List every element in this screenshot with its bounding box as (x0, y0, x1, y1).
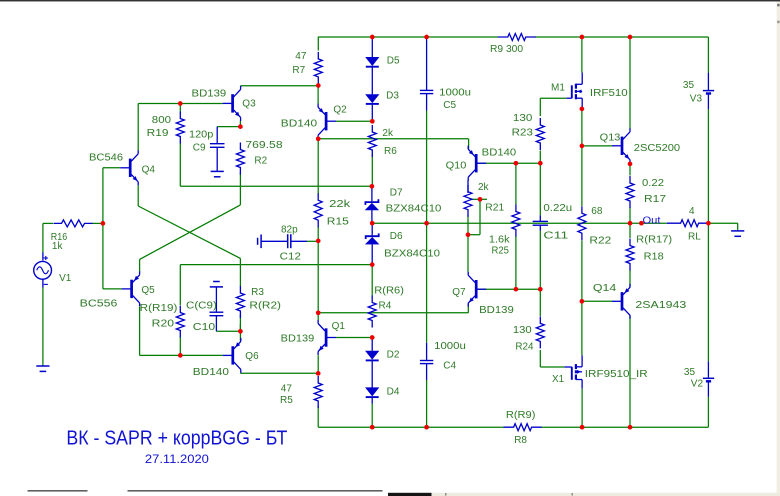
svg-text:D7: D7 (390, 188, 403, 199)
svg-text:2k: 2k (382, 128, 394, 139)
svg-text:R7: R7 (292, 65, 305, 76)
wire Q1 emitter to R5 (317, 355, 319, 373)
junction dots (178, 101, 183, 106)
svg-text:R22: R22 (589, 236, 611, 247)
wire M1 drain top (581, 37, 583, 73)
svg-text:Q4: Q4 (142, 165, 156, 176)
svg-text:120p: 120p (189, 130, 214, 141)
ground for C9 (211, 170, 224, 172)
wire top supply rail right of R9 (535, 36, 709, 38)
bottom window line middle (128, 490, 383, 491)
wire R5 bottom to rail (317, 406, 319, 428)
wire V1 to ground (42, 288, 44, 367)
transistor Q7 BD139 (475, 280, 478, 298)
transistor Q14 2SA1943 (621, 292, 624, 310)
wire R16 to node A (92, 222, 103, 224)
svg-text:BC556: BC556 (80, 299, 118, 310)
svg-text:27.11.2020: 27.11.2020 (145, 454, 209, 466)
svg-text:BD140: BD140 (281, 118, 318, 129)
resistor R15 22k (314, 193, 322, 227)
svg-text:BC546: BC546 (89, 152, 123, 163)
svg-text:47: 47 (281, 384, 293, 395)
svg-text:R23: R23 (512, 127, 534, 138)
wire Q3 emitter node (239, 121, 241, 128)
resistor R5 47 (314, 376, 322, 408)
svg-text:0.22u: 0.22u (543, 203, 572, 214)
svg-text:R(R9): R(R9) (506, 410, 535, 421)
wire Q2 base (336, 120, 372, 122)
wire V3 column upper (707, 37, 709, 73)
svg-text:D4: D4 (387, 387, 400, 398)
wire Q6 emitter node (239, 324, 241, 331)
resistor R24 130 (536, 316, 544, 348)
svg-text:22k: 22k (329, 199, 351, 210)
svg-text:Q7: Q7 (452, 287, 466, 298)
svg-text:Q5: Q5 (141, 285, 155, 296)
transistor Q10 BD140 (475, 154, 478, 172)
svg-text:D5: D5 (387, 55, 400, 66)
svg-text:R6: R6 (384, 146, 397, 157)
wire mid row y264 to D6 bottom (180, 264, 372, 266)
wire top supply rail left of R9 (318, 36, 498, 38)
resistor R25 1.6k (512, 205, 520, 237)
transistor Q2 BD140 (325, 112, 328, 130)
resistor R17 0.22 (626, 176, 634, 208)
svg-text:C12: C12 (280, 252, 302, 263)
svg-text:R(R19): R(R19) (140, 303, 178, 314)
wire Q14 base node to X1 (581, 301, 583, 355)
transistor Q3 BD139 (231, 94, 234, 112)
svg-text:D2: D2 (387, 350, 400, 361)
capacitor C9 120p (216, 127, 218, 143)
svg-text:X1: X1 (552, 374, 565, 385)
svg-text:V2: V2 (691, 378, 704, 389)
wire R15 bottom to C12 node (317, 226, 319, 241)
svg-text:130: 130 (513, 325, 532, 336)
resistor R7 47 (314, 52, 322, 84)
wire R23 bottom (539, 151, 541, 164)
svg-text:C4: C4 (443, 361, 456, 372)
svg-text:R(R17): R(R17) (636, 235, 672, 246)
transistor Q13 2SC5200 (621, 137, 624, 155)
diode D2 (371, 338, 373, 351)
bottom taskbar black segment (388, 493, 432, 496)
wire C11 column (539, 163, 541, 215)
mosfet M1 IRF510 (566, 97, 572, 99)
wire R19 top lead (179, 104, 181, 112)
wire R18 bottom to Q14 emitter (629, 270, 631, 288)
wire node A column to Q5 base (102, 223, 104, 289)
wire R24 top (539, 289, 541, 316)
svg-text:Q14: Q14 (593, 283, 617, 294)
svg-text:0.22: 0.22 (642, 178, 664, 189)
svg-text:C9: C9 (193, 143, 206, 154)
svg-text:IRF9510_IR: IRF9510_IR (585, 369, 648, 380)
wire C12 node to Q1 node (317, 241, 319, 313)
resistor R4 (368, 296, 376, 328)
capacitor C5 1000u (426, 37, 428, 90)
wire V2 column upper (707, 223, 709, 361)
transistor Q6 BD140 (231, 346, 234, 364)
resistor RL 4 (667, 220, 708, 227)
wire R4 top lead (371, 265, 373, 296)
svg-text:R4: R4 (379, 300, 392, 311)
wire cross diagonal A (Q4 emitter to R3) (137, 185, 139, 206)
resistor R16 1k (54, 220, 93, 227)
wire Q6 emitter link (239, 331, 241, 341)
wire D4 bottom to rail (371, 404, 373, 428)
svg-text:R3: R3 (251, 287, 264, 298)
svg-text:35: 35 (684, 367, 696, 378)
wire C4 to rail (426, 380, 428, 427)
wire R15 column top (317, 139, 319, 194)
wire Q1 base (336, 337, 372, 339)
wire Q3 collector to R7 junction (240, 85, 318, 87)
svg-text:130: 130 (513, 113, 533, 124)
wire Q14 base (582, 300, 613, 302)
svg-text:R(R6): R(R6) (374, 286, 404, 297)
svg-text:BZX84C10: BZX84C10 (384, 249, 440, 260)
wire M1 gate (540, 97, 566, 99)
resistor R23 130 (536, 118, 544, 150)
svg-text:BZX84C10: BZX84C10 (386, 204, 442, 215)
svg-text:Q2: Q2 (333, 104, 347, 115)
diode D3 (366, 95, 379, 103)
resistor R18 (626, 239, 634, 271)
battery V3 35 (707, 73, 709, 90)
svg-text:BD140: BD140 (482, 147, 517, 158)
wire R20 top corner (179, 265, 181, 305)
wire Q13 base node to R22 (581, 146, 583, 206)
wire R19 bottom to feedback row (179, 143, 181, 187)
wire feedback row y186 (180, 185, 372, 187)
resistor R22 68 (578, 206, 586, 240)
transistor Q1 BD139 (325, 328, 328, 346)
wire R21 to Q7 collector (467, 216, 469, 272)
svg-text:C10: C10 (193, 322, 216, 333)
wire Q6 collector to Q1 emitter node (239, 372, 241, 374)
wire bottom rail left of R8 (318, 426, 504, 428)
svg-text:R19: R19 (147, 128, 169, 139)
zener D7 BZX84C10 (371, 186, 373, 201)
svg-text:R17: R17 (644, 194, 667, 205)
svg-text:BD139: BD139 (479, 305, 514, 316)
svg-text:V3: V3 (690, 93, 703, 104)
svg-text:4: 4 (689, 206, 695, 217)
resistor R20 (176, 306, 184, 338)
svg-text:D6: D6 (390, 231, 403, 242)
svg-text:R2: R2 (254, 155, 267, 166)
svg-text:1000u: 1000u (434, 341, 466, 352)
svg-text:Q1: Q1 (332, 321, 346, 332)
wire X1 source to rail (581, 389, 583, 428)
wire R18 top (629, 223, 631, 238)
svg-text:1.6k: 1.6k (489, 235, 511, 246)
svg-text:R9 300: R9 300 (490, 44, 524, 55)
svg-text:82p: 82p (281, 224, 298, 235)
svg-text:R15: R15 (327, 217, 350, 228)
right scrollbar (777, 2, 780, 496)
svg-text:ВК - SAPR + коррBGG - БТ: ВК - SAPR + коррBGG - БТ (66, 428, 287, 450)
wire Out node to ground (708, 222, 737, 224)
resistor R19 800 (176, 112, 184, 144)
diode D4 (366, 388, 379, 396)
svg-text:769.58: 769.58 (245, 140, 283, 151)
svg-text:Q13: Q13 (600, 132, 621, 143)
svg-text:R24: R24 (515, 342, 534, 353)
wire Q2 collector junction to Q10 emitter (318, 138, 468, 140)
svg-text:2SC5200: 2SC5200 (634, 143, 681, 154)
wire Q13 base (582, 145, 613, 147)
capacitor C12 82p (257, 238, 259, 245)
svg-text:C5: C5 (443, 100, 456, 111)
svg-text:R21: R21 (485, 203, 504, 214)
wire R22 bottom to Q14 base node (581, 241, 583, 302)
wire bottom rail right of R8 (541, 426, 708, 428)
wire C9 top (217, 126, 240, 128)
wire R7 top lead (317, 37, 319, 51)
wire stage2 row y312 (318, 312, 468, 314)
ground for V1 (36, 365, 49, 367)
wire C10 bottom to Q6 emitter node (216, 330, 240, 332)
svg-text:Out: Out (643, 216, 661, 227)
wire R25 column (515, 163, 517, 204)
svg-text:Q3: Q3 (242, 99, 256, 110)
wire V1 to R16 (43, 222, 53, 224)
resistor R2 769.58 (236, 143, 244, 175)
svg-text:R(R2): R(R2) (249, 301, 281, 312)
capacitor C11 0.22u (539, 215, 541, 221)
wire Q2 emitter column (317, 86, 319, 105)
svg-text:V1: V1 (59, 273, 72, 284)
resistor R9 300 (498, 34, 536, 41)
wire Q4 base (103, 167, 120, 169)
svg-text:R18: R18 (644, 252, 665, 263)
wire Q13 emitter to R17 (629, 164, 631, 176)
wire cross diagonal B (R2 to Q5 emitter) (140, 205, 241, 260)
capacitor C10 flipped with ground above (213, 281, 220, 283)
svg-text:R5: R5 (280, 395, 293, 406)
svg-text:D3: D3 (386, 91, 399, 102)
svg-text:Q6: Q6 (245, 351, 259, 362)
svg-text:2SA1943: 2SA1943 (635, 300, 686, 311)
svg-text:R20: R20 (152, 319, 175, 330)
wire Q14 collector to rail (629, 315, 631, 427)
wire M1 source to Q13 base node (581, 109, 583, 146)
svg-text:RL: RL (688, 232, 701, 243)
resistor R8 R(R9) (504, 424, 542, 431)
wire bus to C4 (426, 223, 428, 343)
svg-text:Q10: Q10 (446, 161, 467, 172)
svg-text:BD140: BD140 (193, 367, 230, 378)
wire Q5 collector to Q6 base row (139, 307, 141, 356)
mosfet X1 IRF9510_IR (564, 366, 571, 368)
wire Q1 collector link (317, 313, 319, 320)
wire Out bus (372, 222, 667, 224)
resistor R3 (236, 286, 244, 318)
wire R21 tap (472, 198, 488, 200)
wire Q3 base (138, 103, 222, 105)
svg-text:47: 47 (295, 51, 307, 62)
svg-text:BD139: BD139 (281, 333, 315, 344)
wire R17 bottom to Out (629, 208, 631, 224)
capacitor C4 1000u (426, 343, 428, 361)
battery V2 35 (707, 361, 709, 377)
wire R2 bottom through crossing (239, 173, 241, 205)
svg-text:R25: R25 (492, 246, 510, 257)
resistor R21 2k (467, 180, 469, 193)
svg-text:IRF510: IRF510 (590, 88, 628, 99)
svg-text:68: 68 (591, 206, 603, 217)
bottom window line left (28, 490, 88, 491)
svg-text:1000u: 1000u (439, 88, 471, 99)
wire V3 to Out node (707, 109, 709, 223)
svg-text:1k: 1k (52, 241, 64, 252)
svg-text:35: 35 (683, 80, 695, 91)
resistor R6 2k (368, 125, 376, 157)
svg-text:C11: C11 (543, 231, 569, 242)
ground at output (731, 230, 744, 232)
svg-text:C(C9): C(C9) (186, 301, 217, 312)
wire X1 gate (540, 366, 564, 368)
diode D5 (371, 37, 373, 57)
wire V2 bottom to rail (707, 397, 709, 427)
wire Q4 collector column (137, 104, 139, 151)
wire R20 bottom (179, 337, 181, 356)
svg-text:800: 800 (152, 115, 172, 126)
zener D6 BZX84C10 (371, 223, 373, 235)
window top border (0, 0, 780, 1)
svg-text:R8: R8 (514, 435, 527, 446)
svg-text:2k: 2k (478, 182, 490, 193)
svg-text:BD139: BD139 (192, 89, 227, 100)
bottom taskbar light strip (432, 493, 780, 496)
wire Q10 base row (476, 162, 540, 164)
wire Q7 base row (476, 288, 540, 290)
wire D column R6 to D7 (371, 154, 373, 187)
wire R3 bottom (239, 315, 241, 332)
wire C5 to bus (426, 111, 428, 224)
wire Q13 collector to rail (629, 37, 631, 129)
source V1 (34, 261, 52, 279)
transistor Q4 BC546 (129, 159, 132, 177)
svg-text:M1: M1 (551, 82, 565, 93)
transistor Q5 BC556 (130, 280, 133, 298)
